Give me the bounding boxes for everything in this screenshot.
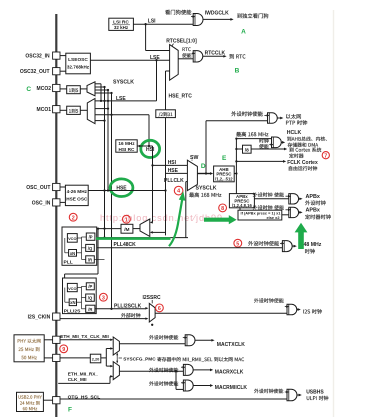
svg-text:32.768kHz: 32.768kHz bbox=[67, 64, 90, 69]
svg-text:PLL48CK: PLL48CK bbox=[114, 242, 137, 248]
pin MCO2 bbox=[53, 84, 60, 91]
svg-text:OSC32_OUT: OSC32_OUT bbox=[20, 69, 50, 75]
green arrow PLLCLK diagonal bbox=[169, 200, 182, 247]
label free running clock bbox=[289, 166, 317, 171]
circled 8 bbox=[219, 204, 227, 212]
wire LSI bbox=[133, 23, 193, 25]
pin MCO1 bbox=[53, 106, 60, 113]
gate PTP enable bbox=[268, 113, 278, 123]
wire SYSCLK feedback bus bbox=[95, 83, 101, 85]
pin OTG_HS bbox=[53, 397, 60, 404]
svg-text:16 MHz: 16 MHz bbox=[118, 141, 135, 146]
mux RTCSEL bbox=[170, 45, 179, 81]
divider APBx PRESC box bbox=[229, 194, 254, 208]
svg-text:HSI: HSI bbox=[168, 160, 177, 166]
svg-text:SYSCLK: SYSCLK bbox=[196, 186, 217, 192]
svg-text:RTCCLK: RTCCLK bbox=[205, 51, 226, 57]
svg-text:/1,2,..512: /1,2,..512 bbox=[215, 176, 233, 181]
svg-text:9: 9 bbox=[62, 347, 65, 353]
wire HSI net bbox=[137, 145, 152, 147]
label watchdog enable bbox=[165, 10, 191, 15]
svg-text:8: 8 bbox=[221, 206, 224, 212]
mux MCO2 bbox=[87, 82, 95, 96]
label I2S clock bbox=[303, 309, 322, 314]
pin OSC32_IN bbox=[53, 52, 60, 59]
svg-text:OSC_IN: OSC_IN bbox=[32, 200, 51, 206]
pin ETH_RMII_REF bbox=[53, 354, 60, 361]
wire USBHS out bbox=[297, 394, 300, 396]
gate MACRMII enable bbox=[183, 380, 193, 391]
svg-text:VCO: VCO bbox=[68, 236, 76, 241]
wire MII_RMII_SEL select bbox=[119, 357, 122, 359]
divider 1to5 box MCO1 bbox=[67, 106, 81, 114]
pll /Q box bbox=[86, 244, 95, 251]
label peripheral clock enable APBx1 bbox=[253, 192, 284, 197]
svg-text:I2SSRC: I2SSRC bbox=[143, 295, 161, 301]
svg-text:MACTXCLK: MACTXCLK bbox=[217, 342, 245, 348]
wire ifbox to gate bbox=[282, 214, 289, 216]
wire OSC32_OUT to LSEOSC bbox=[60, 70, 66, 72]
svg-text:D: D bbox=[201, 163, 206, 170]
svg-text:MCO1: MCO1 bbox=[37, 107, 52, 113]
chip boundary line bbox=[55, 14, 57, 417]
wire HSE_RTC into mux bbox=[166, 70, 170, 72]
wire PTP clock bbox=[206, 120, 268, 122]
circled 7 bbox=[322, 152, 329, 159]
circled 2 bbox=[69, 213, 77, 221]
svg-text:/R: /R bbox=[88, 307, 92, 312]
wire divider to MCO2 mux bbox=[80, 88, 86, 90]
svg-text:LSI: LSI bbox=[148, 19, 156, 25]
svg-text:LSE: LSE bbox=[150, 55, 160, 61]
gate 48MHz enable bbox=[282, 241, 292, 252]
wire MACRMIICLK bbox=[193, 385, 211, 387]
label RTC enable bbox=[183, 47, 191, 51]
svg-text:4: 4 bbox=[177, 189, 180, 195]
wire HCLK clock line bbox=[236, 138, 271, 140]
svg-text:LSE: LSE bbox=[116, 96, 126, 102]
mux SW select stub bbox=[191, 160, 193, 161]
pllI2S feedback wires bbox=[64, 288, 66, 303]
wire if box feed bbox=[239, 208, 241, 210]
pll xN box bbox=[69, 250, 77, 257]
label to independent watchdog bbox=[237, 13, 268, 18]
wire HSE_RTC vertical bbox=[165, 118, 167, 236]
wire APBx timer out bbox=[299, 211, 301, 213]
label to RTC bbox=[229, 54, 245, 59]
label peripheral clock enable APBx2 bbox=[253, 205, 284, 210]
label to AHB bus core bbox=[287, 137, 327, 142]
svg-text:/M: /M bbox=[124, 227, 129, 233]
mux ETH TX bbox=[113, 337, 119, 355]
wire /8 to cortex timer bbox=[251, 148, 285, 150]
wire APBx presc to gate bbox=[254, 198, 288, 200]
wire mux TX out bbox=[119, 343, 185, 345]
pll /P box bbox=[86, 233, 95, 240]
svg-text:HSE_RTC: HSE_RTC bbox=[169, 94, 193, 100]
oscillator LSIRC box bbox=[109, 18, 134, 30]
wire PLL R stub bbox=[94, 258, 104, 260]
divider /2,20 box bbox=[90, 354, 101, 363]
gate APBx peripheral enable bbox=[289, 194, 299, 204]
svg-text:VCO: VCO bbox=[68, 286, 76, 291]
wire OSC_OUT stub bbox=[60, 186, 65, 188]
svg-text:4-26 MHz: 4-26 MHz bbox=[67, 189, 88, 194]
svg-text:C: C bbox=[26, 86, 31, 93]
svg-text:MCO2: MCO2 bbox=[37, 86, 52, 92]
wire mux RX out bbox=[119, 370, 183, 372]
wire OSC_IN stub bbox=[60, 201, 65, 203]
label peripheral clock enable I2S bbox=[254, 298, 284, 303]
svg-text:HSE: HSE bbox=[168, 168, 179, 174]
svg-text:2: 2 bbox=[72, 215, 75, 221]
label memory and DMA bbox=[288, 143, 319, 147]
svg-text:/8: /8 bbox=[245, 147, 249, 153]
svg-text:xN: xN bbox=[70, 300, 75, 305]
svg-text:OSC32_IN: OSC32_IN bbox=[25, 54, 50, 60]
svg-text:2,20: 2,20 bbox=[92, 356, 100, 361]
wire I2S mux out bbox=[155, 312, 287, 314]
svg-text:5: 5 bbox=[236, 241, 239, 247]
pin OSC_IN bbox=[53, 199, 60, 206]
svg-text:/R: /R bbox=[88, 257, 92, 262]
green arrow up APBx timer bbox=[295, 223, 308, 249]
wire MACTXCLK bbox=[195, 339, 212, 341]
svg-text:/P: /P bbox=[88, 284, 92, 289]
wire vertical bus LSE-PLL bbox=[104, 87, 106, 238]
green circle HSI bbox=[141, 140, 160, 157]
svg-text:B: B bbox=[235, 68, 240, 75]
svg-text:48 MHz: 48 MHz bbox=[304, 242, 322, 248]
wire bus to /8 bbox=[236, 148, 242, 150]
wire MCO2 mux input stubs bbox=[95, 86, 105, 88]
gate IWDG enable bbox=[193, 14, 203, 26]
svg-text:PLLCLK: PLLCLK bbox=[164, 178, 184, 184]
svg-text:SW: SW bbox=[190, 155, 198, 161]
wire RX clock bbox=[58, 382, 110, 384]
label SYSCFG_PMC register MII_RMII_SEL bbox=[157, 357, 244, 362]
wire MCO2 pin to divider bbox=[60, 88, 67, 90]
eth PHY box bbox=[14, 335, 44, 362]
gate HCLK enable bbox=[272, 137, 282, 148]
label peripheral clock enable MACTX bbox=[149, 335, 178, 340]
svg-text:HCLK: HCLK bbox=[287, 130, 302, 136]
svg-text:7: 7 bbox=[324, 153, 327, 159]
svg-text:else x2: else x2 bbox=[267, 215, 281, 220]
svg-text:PLL: PLL bbox=[64, 260, 73, 266]
wire PHY to REF pin bbox=[44, 357, 52, 359]
mux RTCSEL select arrow bbox=[171, 44, 173, 47]
gate USBHS enable bbox=[287, 389, 297, 401]
wire RMII branch bbox=[175, 371, 177, 389]
wire I2S out bbox=[297, 309, 299, 311]
wire vertical bus HSE bbox=[107, 90, 109, 191]
svg-text:RTCSEL[1:0]: RTCSEL[1:0] bbox=[166, 39, 197, 45]
wire OSC32_IN to LSEOSC bbox=[60, 55, 66, 57]
label max 168MHz mid bbox=[189, 192, 221, 197]
pll /R box bbox=[86, 256, 95, 263]
usb PHY box bbox=[17, 392, 44, 411]
wire MCO1 pin to divider bbox=[60, 109, 67, 111]
divider /8 box bbox=[243, 145, 252, 153]
label peripheral clock enable PTP bbox=[231, 111, 262, 116]
circled 5 bbox=[234, 239, 242, 247]
svg-text:MACRXCLK: MACRXCLK bbox=[215, 369, 244, 375]
oscillator HSE OSC box bbox=[65, 185, 88, 205]
wire LSE lower branch bbox=[156, 60, 158, 101]
pllI2S /Q box bbox=[86, 294, 95, 301]
pll feedback wires bbox=[64, 238, 66, 253]
label peripheral clock enable 48M bbox=[248, 241, 279, 246]
label clock enable HCLK bbox=[259, 139, 268, 144]
pllI2S /P box bbox=[86, 283, 94, 290]
wire AHB out to bus bbox=[234, 173, 236, 175]
svg-text:FCLK Cortex: FCLK Cortex bbox=[287, 160, 318, 166]
wire vertical bus PLLI2S bbox=[111, 93, 113, 309]
label ethernet PTP clock bbox=[286, 114, 301, 119]
wire PHY to TX pin bbox=[44, 339, 52, 341]
gate RTC enable bbox=[193, 51, 203, 62]
pllI2S xN box bbox=[69, 299, 76, 306]
wire PLLCLK into mux bbox=[186, 181, 188, 183]
svg-text:ETH_MII_RX_: ETH_MII_RX_ bbox=[68, 371, 99, 376]
circled 6 bbox=[156, 304, 164, 312]
label peripheral clock enable MACRX bbox=[149, 368, 178, 373]
divider /2to31 box bbox=[156, 110, 176, 118]
green circle HSE bbox=[110, 179, 133, 197]
pin OSC_OUT bbox=[53, 183, 60, 190]
svg-text:SYSCLK: SYSCLK bbox=[113, 80, 134, 86]
wire HCLK out bbox=[281, 141, 283, 143]
divider /M box bbox=[121, 224, 133, 233]
gate APBx timer enable bbox=[289, 207, 299, 217]
wire SYSCLK out bbox=[197, 173, 211, 175]
faint page border line right bbox=[333, 10, 335, 417]
wire APBx out bbox=[299, 198, 301, 200]
mux SW bbox=[187, 160, 197, 190]
svg-text:6: 6 bbox=[158, 306, 161, 312]
gate MACTX enable bbox=[185, 335, 195, 346]
wire RTCCLK bbox=[203, 55, 225, 57]
svg-text:F: F bbox=[68, 407, 72, 414]
circled 1 bbox=[123, 215, 131, 223]
gate MACRX enable bbox=[183, 364, 193, 375]
wire PLLI2SCLK bbox=[95, 308, 146, 310]
green arrow to APBx ifbox bbox=[204, 215, 237, 224]
wire divider to MCO1 mux bbox=[80, 109, 87, 111]
mux MCO1 bbox=[87, 99, 95, 124]
svg-text:HSI: HSI bbox=[146, 147, 155, 153]
svg-text:OSC_OUT: OSC_OUT bbox=[26, 185, 50, 191]
oscillator HSI RC box bbox=[116, 140, 137, 152]
svg-text:MACRMIICLK: MACRMIICLK bbox=[215, 385, 248, 391]
label peripheral clock enable USB bbox=[254, 389, 283, 394]
pin OSC32_OUT bbox=[53, 68, 60, 75]
divider 1to5 box MCO2 bbox=[67, 86, 81, 94]
mux I2SSRC bbox=[149, 303, 155, 322]
label to Cortex system bbox=[289, 148, 321, 153]
pll PLL outer box bbox=[62, 227, 97, 265]
svg-text:/P: /P bbox=[89, 235, 93, 240]
pin ETH_MII_TX_CLK bbox=[53, 336, 60, 343]
svg-text:A: A bbox=[241, 29, 246, 36]
label external clock bbox=[121, 313, 140, 318]
svg-text:1: 1 bbox=[125, 217, 128, 223]
svg-text:/1,2,4,8,16: /1,2,4,8,16 bbox=[232, 203, 252, 208]
gate I2S enable bbox=[287, 304, 297, 315]
svg-text:APBx: APBx bbox=[306, 208, 320, 214]
pin I2S_CKIN bbox=[53, 313, 60, 320]
wire FCLK bbox=[236, 160, 284, 162]
pllI2S /R box bbox=[86, 305, 95, 312]
svg-text:LSEOSC: LSEOSC bbox=[68, 57, 88, 63]
svg-text:HSE OSC: HSE OSC bbox=[66, 196, 88, 201]
wire PLL48CK bbox=[95, 247, 282, 249]
mux ETH RX bbox=[113, 362, 119, 380]
label timer bbox=[289, 153, 303, 158]
wire LSE to RTCSEL mux bbox=[90, 59, 169, 61]
svg-text:IWDGCLK: IWDGCLK bbox=[205, 10, 229, 16]
mux PLL input bbox=[140, 219, 150, 236]
wire OTG ULPI clock bbox=[60, 398, 287, 400]
wire IWDGCLK bbox=[203, 18, 232, 20]
svg-text:APBx: APBx bbox=[306, 194, 320, 200]
circled 3 bbox=[100, 293, 108, 301]
svg-text:ETH_MII_TX_CLK_MII: ETH_MII_TX_CLK_MII bbox=[60, 334, 108, 339]
wire TX clock bbox=[60, 339, 111, 341]
pll VCO box bbox=[67, 234, 77, 243]
circled 4 bbox=[174, 186, 183, 195]
green line PLLCLK horizontal bbox=[96, 237, 171, 240]
circled 9 bbox=[60, 345, 68, 353]
svg-text:/Q: /Q bbox=[88, 246, 93, 251]
svg-text:PLLI2S: PLLI2S bbox=[64, 309, 81, 315]
svg-text:CLK_MII: CLK_MII bbox=[68, 377, 87, 382]
wire MACRXCLK bbox=[193, 369, 211, 371]
wire HSE net bbox=[88, 190, 165, 192]
label max168 HCLK bbox=[236, 132, 268, 137]
svg-text:SYSCFG_PMC: SYSCFG_PMC bbox=[123, 356, 156, 361]
wire mux to RTC gate bbox=[178, 58, 193, 60]
wire /M to PLL VCO bbox=[65, 228, 121, 230]
wire MCO1 mux input stubs bbox=[95, 108, 108, 110]
svg-text:I2S_CKIN: I2S_CKIN bbox=[28, 315, 51, 321]
svg-text:OTG_HS_SCL: OTG_HS_SCL bbox=[68, 395, 101, 401]
wire PTP out bbox=[277, 117, 281, 119]
svg-text:3: 3 bbox=[102, 295, 105, 301]
pllI2S VCO box bbox=[67, 283, 77, 291]
wire REF to divider bbox=[60, 357, 90, 359]
wire external clock bbox=[60, 318, 146, 320]
svg-text:xN: xN bbox=[70, 251, 75, 256]
svg-text:E: E bbox=[222, 155, 227, 162]
label peripheral clock enable MACRMII bbox=[149, 381, 178, 386]
svg-text:PLLI2SCLK: PLLI2SCLK bbox=[114, 303, 142, 309]
svg-text:32 kHz: 32 kHz bbox=[114, 25, 129, 30]
svg-text:HSI RC: HSI RC bbox=[119, 147, 136, 152]
pll PLLI2S outer box bbox=[63, 278, 97, 314]
wire USB PHY to pin bbox=[43, 399, 52, 401]
oscillator LSE OSC box bbox=[66, 53, 91, 74]
wire divider split bbox=[101, 357, 107, 359]
multiplier if-box bbox=[238, 210, 282, 220]
wire PLLI2S M feed bbox=[97, 229, 99, 274]
svg-text:USBHS: USBHS bbox=[306, 390, 324, 396]
svg-text:/Q: /Q bbox=[88, 296, 93, 301]
wire PLL mux to /M bbox=[133, 228, 140, 230]
wire 48M out bbox=[292, 245, 294, 247]
divider AHB PRESC box bbox=[214, 166, 235, 182]
